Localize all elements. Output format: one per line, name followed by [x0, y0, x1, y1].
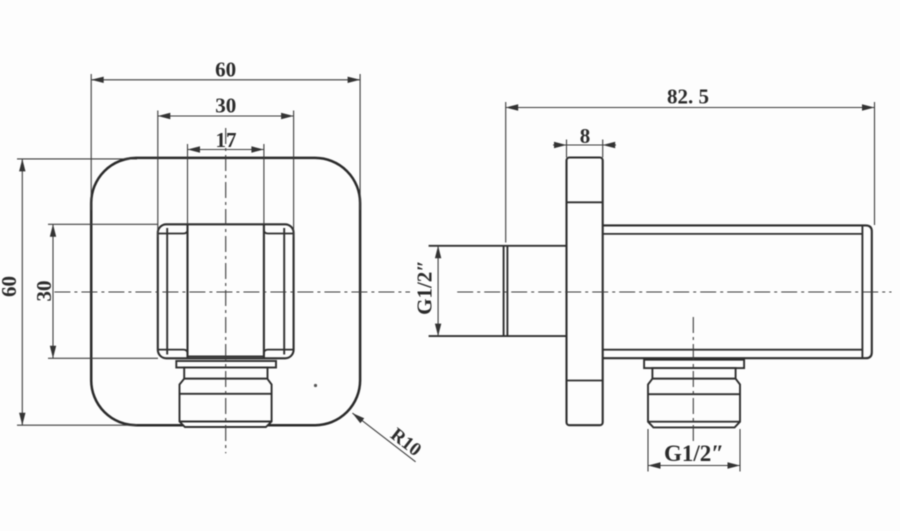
dim 60 top right extension [359, 74, 361, 210]
dim 82.5 line [506, 107, 875, 109]
dim 30 left bottom extension [48, 357, 158, 359]
front vertical centerline [225, 128, 227, 453]
front outlet cylinder lower rim line [180, 421, 272, 423]
side horizontal centerline [457, 291, 891, 293]
leader line R10 [352, 413, 415, 462]
side outlet step1 collar [644, 360, 744, 368]
dimensions [17, 74, 875, 472]
arrow dim8 left [554, 142, 567, 148]
dim G1/2 left line [437, 246, 439, 336]
front view inner square escutcheon 30x30 [158, 224, 294, 358]
arrow dim30top left [158, 113, 171, 119]
dim G1/2 bottom line [648, 465, 740, 467]
svg-text:30: 30 [32, 281, 56, 302]
dim 82.5 right extension [874, 102, 876, 225]
dim 30 top left extension [157, 111, 159, 238]
arrow dim60top right [348, 77, 361, 83]
arrow dim82.5 right [862, 104, 875, 110]
dim 17 left extension [187, 144, 189, 224]
front horizontal centerline [54, 291, 410, 293]
dim 60 top left extension [90, 74, 92, 210]
front outlet cylinder G1/2 nut [180, 379, 272, 427]
side view body block [603, 225, 872, 358]
front outlet cylinder mid line [180, 393, 272, 395]
arrow dimG12bottom right [728, 462, 741, 468]
dimension texts [0, 57, 724, 466]
dim 60 left line [21, 159, 23, 425]
svg-text:17: 17 [216, 128, 237, 152]
dim 17 right extension [263, 144, 265, 224]
inner square top shoulder line left [158, 230, 188, 234]
dim 30 left top extension [48, 223, 158, 225]
dim 8 right extension [602, 140, 604, 158]
svg-text:30: 30 [215, 94, 236, 118]
dim 17 line [188, 149, 264, 151]
arrow dim17 right [251, 146, 264, 152]
inner square top shoulder line right [264, 230, 294, 234]
arrow dim30left down [50, 346, 56, 359]
arrowheads [19, 77, 874, 469]
dim 60 left top extension [17, 158, 137, 160]
side view inlet pipe top outline / extension [429, 245, 567, 247]
scan speckle dot [314, 384, 317, 387]
centerlines [54, 128, 891, 453]
front outlet step1 collar [176, 361, 276, 368]
svg-text:8: 8 [580, 124, 591, 148]
dim 8 line [553, 144, 616, 146]
pipe end face [503, 246, 505, 336]
arrow dim82.5 left [506, 104, 519, 110]
side outlet vertical centerline [692, 317, 694, 442]
dim 60 top line [91, 79, 360, 81]
side outlet cylinder mid line [648, 393, 740, 395]
dim 30 top right extension [293, 111, 295, 238]
svg-text:G1/2″: G1/2″ [413, 260, 437, 315]
arrow dim30top right [281, 113, 294, 119]
flange corner tangent line top [567, 201, 603, 203]
arrow dimG12bottom left [648, 462, 661, 468]
side outlet cylinder G1/2 nut [648, 379, 740, 428]
svg-text:60: 60 [0, 276, 21, 297]
arrow dim60top left [91, 77, 104, 83]
body bottom chamfer line [603, 349, 863, 351]
arrow dim60left up [19, 159, 25, 172]
arrow dimG12left up [435, 246, 441, 258]
dim G1/2 bottom right extension [739, 429, 741, 472]
front outlet step2 collar [184, 368, 267, 379]
pipe end chamfer line [506, 246, 508, 336]
arrow dimG12left down [435, 324, 441, 337]
svg-text:82. 5: 82. 5 [667, 85, 709, 109]
body top chamfer line [603, 233, 863, 235]
central fitting right edge [263, 224, 265, 358]
dim 30 top line [158, 115, 294, 117]
arrow dim8 right [603, 142, 616, 148]
inner square left chamfer silhouette line [166, 228, 168, 355]
side view wall flange 8 thick [567, 158, 603, 426]
body end chamfer line [861, 225, 863, 358]
svg-text:60: 60 [215, 57, 236, 81]
arrow R10 leader [350, 411, 364, 424]
fitting bottom shadow line [188, 355, 264, 357]
side outlet step2 collar [652, 368, 735, 379]
dim G1/2 bottom left extension [647, 429, 649, 472]
central fitting left edge (17 wide) [186, 224, 188, 358]
dim 82.5 left extension [505, 102, 507, 243]
dim 8 left extension [566, 140, 568, 158]
inner square right chamfer silhouette line [283, 228, 285, 355]
inner square bottom shoulder line right [264, 350, 294, 354]
dim 60 left bottom extension [17, 424, 137, 426]
side outlet cylinder lower rim line [648, 421, 740, 423]
flange corner tangent line bottom [567, 380, 603, 382]
arrow dim17 left [188, 146, 201, 152]
svg-text:G1/2″: G1/2″ [664, 441, 724, 466]
front view outer square plate 60x60 R10 [91, 158, 360, 425]
inner square bottom shoulder line left [158, 350, 188, 354]
dim 30 left line [52, 224, 54, 358]
arrow dim60left down [19, 413, 25, 426]
svg-text:R10: R10 [386, 424, 425, 461]
arrow dim30left up [50, 224, 56, 237]
side view inlet pipe bottom outline / extension [429, 335, 567, 337]
